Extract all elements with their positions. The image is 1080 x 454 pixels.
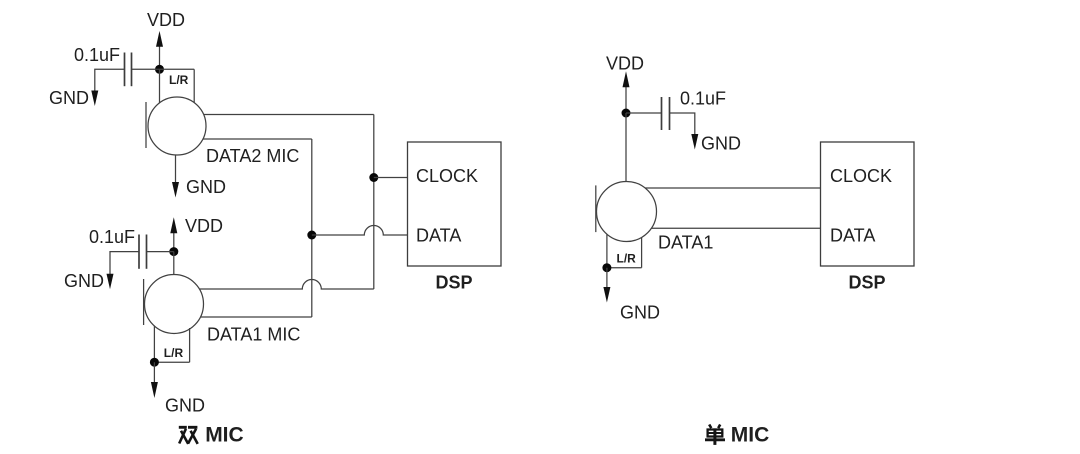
svg-text:DSP: DSP bbox=[849, 273, 886, 293]
capacitor C1 0.1uF bbox=[124, 53, 126, 87]
wire VDD node into MIC2 bbox=[159, 69, 161, 103]
wire clock vertical bus bbox=[373, 115, 375, 290]
single MIC port line bbox=[595, 185, 597, 232]
power arrow VDD (MIC1) bbox=[173, 233, 175, 252]
svg-text:GND: GND bbox=[49, 88, 89, 108]
svg-text:VDD: VDD bbox=[606, 54, 644, 74]
junction node VDD/C1 bbox=[155, 65, 164, 74]
capacitor C3 0.1uF bbox=[661, 97, 663, 130]
ground arrow (MIC1) bbox=[153, 362, 155, 382]
MIC2 port line bbox=[145, 102, 147, 148]
svg-text:0.1uF: 0.1uF bbox=[680, 89, 726, 109]
svg-text:VDD: VDD bbox=[147, 10, 185, 30]
wire DATA to DSP with hop over clock bus bbox=[312, 226, 408, 235]
junction node L/R-GND (MIC1) bbox=[150, 358, 159, 367]
caption dual MIC bbox=[179, 427, 198, 444]
wire VDD node to C3 left plate bbox=[626, 112, 662, 114]
capacitor C2 0.1uF bbox=[138, 235, 140, 269]
svg-text:DSP: DSP bbox=[436, 273, 473, 293]
junction node DATA bbox=[307, 231, 316, 240]
wire single MIC data to DSP bbox=[652, 227, 821, 229]
svg-text:DATA1 MIC: DATA1 MIC bbox=[207, 325, 300, 345]
svg-text:L/R: L/R bbox=[169, 73, 189, 87]
wire MIC2 data output (horizontal) bbox=[203, 138, 312, 140]
power arrow VDD (single MIC) bbox=[625, 87, 627, 114]
svg-text:L/R: L/R bbox=[164, 346, 184, 360]
L/R select box (MIC1) bbox=[153, 326, 155, 362]
wire VDD node into single MIC bbox=[625, 113, 627, 182]
junction node CLOCK bbox=[369, 173, 378, 182]
ground arrow (single MIC) bbox=[606, 268, 608, 289]
svg-text:MIC: MIC bbox=[731, 424, 770, 447]
wire C2 right plate to VDD node bbox=[147, 251, 174, 253]
microphone MIC (DATA1 single) body bbox=[597, 182, 657, 242]
junction node VDD/C3 bbox=[622, 109, 631, 118]
DSP block (single MIC) bbox=[821, 142, 915, 266]
svg-text:CLOCK: CLOCK bbox=[830, 166, 892, 186]
ground arrow (C3) bbox=[691, 134, 698, 150]
wire C3 right plate to GND drop bbox=[670, 113, 695, 135]
wire MIC1 data output bbox=[201, 316, 312, 318]
svg-text:GND: GND bbox=[701, 134, 741, 154]
wire C1 right plate to VDD node bbox=[132, 68, 160, 70]
caption single MIC bbox=[705, 425, 725, 445]
svg-text:VDD: VDD bbox=[185, 216, 223, 236]
wire MIC2 clock output (horizontal) bbox=[204, 114, 374, 116]
microphone MIC1 (DATA1) body bbox=[145, 275, 204, 334]
svg-text:0.1uF: 0.1uF bbox=[89, 227, 135, 247]
wire C1 left plate to GND drop bbox=[95, 69, 125, 91]
wire CLOCK to DSP bbox=[374, 177, 408, 179]
svg-text:GND: GND bbox=[165, 396, 205, 416]
DSP block (dual MIC) bbox=[408, 142, 502, 266]
svg-text:GND: GND bbox=[620, 303, 660, 323]
ground arrow (C1) bbox=[91, 91, 98, 107]
microphone MIC2 (DATA2) body bbox=[148, 97, 206, 155]
svg-text:GND: GND bbox=[64, 271, 104, 291]
junction node L/R-GND (single MIC) bbox=[602, 263, 611, 272]
svg-text:0.1uF: 0.1uF bbox=[74, 45, 120, 65]
svg-text:DATA: DATA bbox=[416, 226, 461, 246]
power arrow VDD (MIC2) bbox=[159, 46, 161, 70]
MIC1 port line bbox=[143, 279, 145, 325]
svg-text:DATA: DATA bbox=[830, 226, 875, 246]
wire VDD node into MIC1 bbox=[173, 252, 175, 275]
ground arrow below MIC2 bbox=[175, 155, 177, 183]
L/R select box (single MIC) bbox=[606, 235, 608, 268]
svg-text:DATA1: DATA1 bbox=[658, 233, 713, 253]
svg-text:L/R: L/R bbox=[617, 252, 637, 266]
wire data vertical bus bbox=[311, 139, 313, 317]
svg-text:MIC: MIC bbox=[205, 424, 244, 447]
ground arrow (C2) bbox=[107, 274, 114, 290]
junction node VDD/C2 bbox=[169, 247, 178, 256]
svg-text:CLOCK: CLOCK bbox=[416, 166, 478, 186]
wire clock bus to MIC1 with hop over data bus bbox=[199, 280, 373, 290]
wire C2 left plate to GND drop bbox=[110, 252, 139, 275]
L/R select box (MIC2) bbox=[160, 68, 195, 70]
svg-text:GND: GND bbox=[186, 177, 226, 197]
svg-text:DATA2 MIC: DATA2 MIC bbox=[206, 146, 299, 166]
wire single MIC clock to DSP bbox=[645, 187, 821, 189]
